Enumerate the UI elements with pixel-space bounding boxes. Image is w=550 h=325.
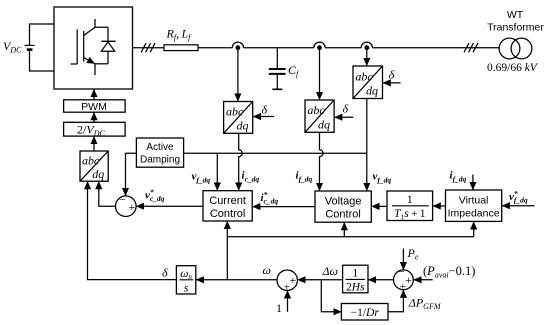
svg-text:Impedance: Impedance	[448, 208, 500, 220]
svg-text:vf_dq: vf_dq	[373, 171, 392, 185]
svg-text:Virtual: Virtual	[459, 195, 489, 207]
svg-text:1: 1	[352, 268, 358, 280]
svg-text:ΔPGFM: ΔPGFM	[408, 296, 442, 312]
wire PWM to converter	[93, 89, 95, 100]
wire omega to integrator	[196, 279, 277, 281]
summing junction S1	[116, 193, 137, 217]
svg-text:+: +	[290, 273, 297, 287]
droop block -1/Dr	[341, 304, 388, 321]
svg-text:Control: Control	[325, 209, 360, 221]
abc/dq block3 (filter voltage)	[353, 66, 383, 99]
svg-text:Current: Current	[209, 195, 246, 207]
first-order filter block 1/(T1s+1)	[387, 191, 433, 222]
summing junction S2 (omega)	[277, 270, 297, 294]
svg-text:1: 1	[407, 194, 413, 206]
2/VDC block	[64, 122, 126, 138]
svg-text:abc: abc	[355, 69, 373, 83]
active damping feed wire (vf tap)	[184, 152, 367, 154]
wire vf_dq branch to Current Control	[216, 153, 218, 190]
wire vf_dq block3 to Voltage Control	[366, 99, 368, 191]
omega distribution wire	[227, 221, 473, 280]
vf_dq* input to Virtual Impedance	[502, 205, 535, 207]
svg-text:abc: abc	[226, 105, 244, 119]
Current Control block	[203, 191, 252, 221]
svg-text:if_dq: if_dq	[296, 170, 313, 184]
inertia block 1/2Hs	[343, 265, 368, 293]
if_dq input to Virtual Impedance	[472, 175, 474, 190]
delta input to block1	[253, 103, 274, 117]
svg-text:−1/Dr: −1/Dr	[351, 307, 380, 319]
transistor Q1 (IGBT)	[71, 19, 109, 75]
svg-text:dq: dq	[366, 84, 378, 98]
svg-text:Damping: Damping	[140, 155, 180, 166]
delta input to block2	[334, 102, 353, 118]
svg-text:v*c_dq: v*c_dq	[145, 188, 165, 204]
svg-text:VDC: VDC	[3, 39, 22, 55]
svg-text:dq: dq	[237, 119, 249, 133]
constant 1 input to S2	[287, 291, 289, 312]
svg-text:Pe: Pe	[407, 246, 419, 262]
WT transformer	[499, 38, 532, 59]
dq/abc inverse block	[80, 151, 108, 181]
DC source VDC	[25, 45, 35, 49]
wire ic_dq block1 to Current Control (hop)	[239, 133, 243, 190]
diode D1	[101, 27, 115, 64]
wire Current Control to S1	[136, 205, 203, 207]
delta input to block3	[383, 68, 401, 83]
wire node2 to abc/dq block2	[319, 48, 321, 100]
three-phase slashes right	[464, 43, 478, 52]
svg-text:dq: dq	[92, 167, 104, 181]
svg-text:dq: dq	[318, 117, 330, 131]
svg-text:1: 1	[276, 301, 282, 315]
PWM block	[64, 100, 126, 113]
abc/dq block2 (filter current)	[305, 100, 334, 132]
Active Damping block	[136, 138, 183, 167]
wire inertia block to S2	[298, 279, 343, 281]
svg-text:Control: Control	[210, 208, 245, 220]
svg-text:abc: abc	[307, 103, 325, 117]
Virtual Impedance block	[446, 190, 502, 221]
svg-text:vf_dq: vf_dq	[192, 171, 211, 185]
svg-text:WT: WT	[507, 9, 524, 21]
svg-text:0.69/66 kV: 0.69/66 kV	[487, 62, 539, 74]
abc/dq block1 (converter current)	[224, 102, 253, 134]
wire 2/VDC to PWM	[93, 112, 95, 122]
svg-text:−: −	[119, 193, 126, 207]
svg-text:ω: ω	[263, 263, 271, 277]
wire node3 to abc/dq block3	[366, 48, 368, 66]
wire Voltage Control to Current Control	[252, 206, 315, 208]
svg-text:i*c_dq: i*c_dq	[261, 190, 279, 206]
wire Virtual Impedance to filter	[433, 205, 446, 207]
wire Active Damping to summing junction S1	[126, 153, 137, 196]
wire filter to Voltage Control	[372, 205, 388, 207]
svg-text:s: s	[184, 283, 189, 295]
capacitor Cf	[269, 48, 286, 90]
svg-text:Transformer: Transformer	[487, 22, 544, 34]
wire S3 to inertia block	[368, 279, 393, 281]
wire VDC top to converter	[30, 24, 55, 45]
summing junction S3 (power)	[394, 265, 414, 293]
three-phase slashes left	[141, 43, 155, 52]
wire S1 to dq/abc inverse block	[99, 181, 116, 206]
node 3	[361, 42, 372, 50]
phase integrator block omega_n/s	[176, 266, 195, 295]
svg-text:PWM: PWM	[81, 101, 107, 113]
Voltage Control block	[315, 191, 371, 222]
svg-text:δ: δ	[162, 266, 168, 280]
svg-text:δ: δ	[343, 102, 349, 116]
Pavail input to S3	[414, 279, 433, 281]
wire converter output rail	[133, 47, 500, 49]
svg-text:(Pavai−0.1): (Pavai−0.1)	[423, 264, 475, 280]
converter box	[54, 7, 133, 89]
svg-text:v*f_dq: v*f_dq	[509, 189, 528, 205]
svg-text:Active: Active	[146, 142, 174, 153]
svg-text:δ: δ	[389, 68, 395, 82]
svg-text:if_dq: if_dq	[450, 169, 467, 183]
svg-text:abc: abc	[82, 154, 100, 168]
wire dq/abc to 2/VDC	[93, 136, 95, 151]
svg-text:2Hs: 2Hs	[346, 282, 365, 294]
wire delta feedback to dq/abc	[88, 181, 177, 279]
svg-text:+: +	[405, 273, 412, 287]
wire node1 to abc/dq block1	[237, 48, 239, 102]
svg-text:Cf: Cf	[288, 63, 300, 79]
svg-text:Voltage: Voltage	[325, 196, 362, 208]
resistor-inductor Rf Lf	[164, 45, 198, 51]
wire VDC bottom to converter	[30, 50, 55, 71]
Pe input to S3	[402, 249, 404, 271]
svg-text:+: +	[129, 200, 136, 214]
wire droop block to S3	[388, 290, 403, 312]
wire if_dq block2 to Voltage Control (hop)	[320, 132, 324, 191]
svg-text:T1s + 1: T1s + 1	[394, 208, 426, 222]
node 2	[314, 42, 325, 50]
svg-text:ic_dq: ic_dq	[242, 170, 260, 184]
node 1	[232, 42, 243, 50]
svg-text:Rf, Lf: Rf, Lf	[166, 27, 193, 43]
svg-text:δ: δ	[262, 103, 268, 117]
wire delta-omega branch to droop block	[321, 280, 341, 312]
svg-text:Δω: Δω	[322, 264, 339, 278]
